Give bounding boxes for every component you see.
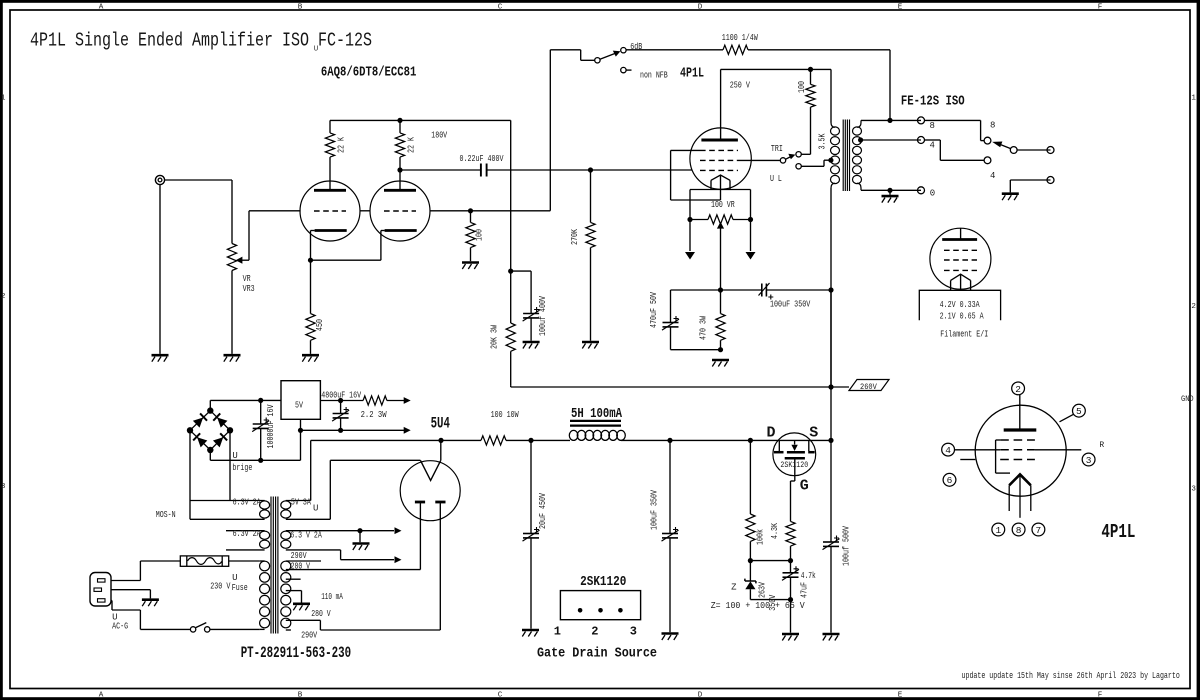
svg-text:100uf 500V: 100uf 500V	[842, 526, 852, 566]
label 100 VR	[711, 200, 735, 210]
pinout pin 5 lead	[1060, 414, 1074, 422]
label 350V	[768, 594, 778, 610]
transformer PT winding 6.3 V 2A (right)	[281, 531, 360, 550]
svg-text:brige: brige	[232, 463, 252, 473]
transformer PT winding 6.3V 2A #2 (left)	[226, 531, 270, 550]
svg-text:100k: 100k	[756, 529, 766, 545]
wire input jack ground leg	[159, 185, 161, 354]
label 6.3V 2A (#2)	[233, 529, 261, 539]
wire output jack ground	[1010, 180, 1050, 192]
svg-text:3: 3	[1191, 486, 1196, 494]
svg-text:E: E	[898, 3, 903, 11]
svg-text:230 V: 230 V	[210, 582, 231, 592]
svg-text:non NFB: non NFB	[640, 71, 668, 81]
pentode V3 grid g1 row	[700, 169, 738, 171]
svg-text:Z: Z	[731, 583, 737, 593]
package 2SK1120 outline	[560, 591, 640, 620]
label 110 mA	[321, 592, 343, 602]
svg-text:290V: 290V	[301, 630, 317, 640]
wire driver rail drop to 20K node	[510, 120, 512, 271]
node bridge bottom corner	[207, 447, 213, 453]
node 0V branch	[298, 428, 303, 433]
rectifier 5U4 filament vee	[420, 460, 440, 480]
hum pot 100 VR body	[690, 215, 751, 224]
diode bridge D1 (top-left)	[193, 413, 207, 427]
wire B+ lead into 5U4	[440, 440, 442, 460]
transistor Q1 channel	[774, 451, 815, 454]
wire bridge plus to regulator	[210, 400, 281, 410]
wire AC earth to ground	[111, 590, 150, 599]
label S	[809, 425, 818, 442]
ground (270K)	[582, 342, 599, 349]
svg-text:1100 1/4W: 1100 1/4W	[722, 33, 758, 43]
wire NFB resistor to 8ohm tap	[748, 50, 890, 121]
svg-text:290V: 290V	[291, 551, 307, 561]
transformer PT primary 230V winding	[260, 561, 270, 629]
stub 290V bottom tap	[286, 629, 291, 631]
svg-text:6: 6	[947, 475, 953, 486]
wire cathode bus	[311, 259, 381, 261]
svg-text:450: 450	[315, 319, 325, 331]
ground (cathode network)	[712, 360, 729, 367]
label 100uf 500V	[842, 526, 852, 566]
wire 4 terminal to selector	[925, 140, 985, 160]
svg-text:D: D	[767, 425, 776, 442]
net label GND at right frame edge	[1181, 394, 1194, 404]
filament reference tube filament	[951, 274, 971, 290]
wire 280V tap to 5U4 plate B	[286, 504, 441, 631]
wire input jack to volume pot	[165, 180, 232, 244]
resistor 20K 3W (dropper)	[506, 271, 515, 386]
update note text	[962, 671, 1180, 681]
label 2.2 3W	[361, 410, 387, 420]
svg-text:E: E	[898, 691, 903, 699]
pinout pin 6 circle	[943, 473, 956, 486]
arrow 0V output	[301, 427, 411, 434]
node 100uF 350V junction	[667, 438, 672, 443]
resistor 2.2 3W	[363, 396, 387, 405]
arrow to filament supply (left)	[685, 220, 695, 260]
node B+ takeoff	[438, 438, 443, 443]
ground (AC inlet)	[142, 600, 159, 607]
pinout pin 4 lead	[955, 449, 1000, 451]
label 100uf 400V	[538, 296, 548, 336]
label 6.3V 2A (#1)	[233, 498, 261, 508]
svg-text:10000uF 16V: 10000uF 16V	[266, 404, 276, 448]
svg-text:B: B	[298, 3, 303, 11]
label 450	[315, 319, 325, 331]
flag 260V	[849, 380, 889, 392]
wire OPT secondary bottom to 0 terminal	[857, 183, 921, 190]
svg-text:4.3K: 4.3K	[770, 523, 780, 539]
wire AC neutral to power switch	[111, 601, 190, 630]
wire grid link between triodes	[360, 210, 371, 212]
pinout pin 3 lead	[1035, 449, 1081, 451]
svg-text:1: 1	[995, 525, 1001, 536]
svg-text:U: U	[232, 573, 237, 583]
label 100uF 350V (filter)	[650, 490, 660, 530]
node source to B+ column	[828, 438, 833, 443]
resistor 100k (gate divider)	[746, 440, 755, 560]
wire B+ column 260V	[830, 290, 832, 440]
node hum pot right	[748, 217, 753, 222]
label 8 (selector)	[990, 121, 995, 131]
svg-text:A: A	[99, 691, 104, 699]
node bridge right corner	[227, 427, 233, 433]
svg-text:250 V: 250 V	[730, 81, 751, 91]
transformer PT core	[271, 497, 278, 634]
label PT-282911-563-230	[241, 644, 351, 662]
capacitor 47uF (gate filter)	[782, 561, 799, 600]
label 0.22uF 400V	[460, 154, 504, 164]
transistor Q1 gate lead	[791, 459, 795, 521]
capacitor 100uf 500V (output cap)	[823, 440, 840, 632]
bridge rectifier frame	[190, 411, 230, 450]
svg-text:4: 4	[990, 171, 995, 181]
svg-text:8: 8	[930, 121, 935, 131]
svg-text:TRI: TRI	[771, 144, 783, 154]
svg-text:4.7k: 4.7k	[801, 571, 816, 581]
svg-text:2: 2	[1191, 303, 1196, 311]
svg-text:1: 1	[1191, 95, 1196, 103]
label 100 (g2)	[797, 81, 807, 93]
pinout filament vee	[1009, 474, 1031, 517]
transformer PT winding 5V 3A (right)	[281, 501, 331, 520]
svg-text:Filament E/I: Filament E/I	[940, 330, 988, 340]
node gate network ground junction	[788, 597, 793, 602]
svg-text:2SK1120: 2SK1120	[580, 574, 626, 590]
svg-text:180V: 180V	[431, 131, 447, 141]
svg-text:PT-282911-563-230: PT-282911-563-230	[241, 644, 351, 662]
diode bridge D2 (top-right)	[213, 413, 227, 427]
svg-text:4P1L: 4P1L	[1101, 521, 1135, 543]
svg-text:100uF 350V: 100uF 350V	[650, 490, 660, 530]
resistor 270K	[586, 170, 595, 341]
switch SW-OUT blade	[992, 142, 1011, 149]
filament reference tube plate	[942, 228, 977, 239]
capacitor 10000uF 16V	[252, 400, 269, 460]
arrow 6.3V heater feed	[341, 550, 402, 563]
svg-text:VR3: VR3	[243, 284, 255, 294]
switch SW-OUT throw 8	[984, 137, 991, 144]
pinout pin 2 circle	[1012, 382, 1025, 395]
label G	[800, 478, 809, 495]
svg-text:6.3 V 2A: 6.3 V 2A	[290, 531, 322, 541]
label 4 (terminal)	[930, 141, 935, 151]
svg-text:3: 3	[630, 625, 637, 639]
triode V1 (6AQ8 a)	[300, 181, 360, 260]
svg-text:280 V: 280 V	[311, 609, 331, 619]
pinout grid rows	[1000, 440, 1035, 460]
pinout plate bar	[1004, 395, 1037, 430]
label 5H 100mA	[571, 406, 622, 422]
diode bridge D4 (bottom-right)	[213, 433, 227, 447]
label 250 V	[730, 81, 751, 91]
wire 5V winding to filament	[330, 460, 420, 519]
svg-text:3: 3	[1, 483, 6, 491]
wire 5V winding to B+ node	[311, 440, 441, 500]
ground (20uF)	[522, 630, 539, 637]
wire divider link	[750, 560, 790, 562]
svg-text:100uF 350V: 100uF 350V	[770, 300, 811, 310]
svg-text:7: 7	[1036, 525, 1042, 536]
svg-text:22 K: 22 K	[337, 137, 347, 153]
svg-text:5H 100mA: 5H 100mA	[571, 406, 622, 422]
ground (input jack)	[152, 355, 169, 362]
node zener top	[748, 558, 753, 563]
switch SW-OUT common	[1010, 147, 1017, 154]
pentode V3 filament	[711, 175, 730, 200]
label 0 (terminal)	[930, 189, 935, 199]
label U L	[770, 174, 782, 184]
label 4P1L (pinout)	[1101, 521, 1135, 543]
node 260V line junction	[828, 384, 833, 389]
wire power switch to PT primary	[210, 628, 260, 630]
svg-text:F: F	[1098, 3, 1103, 11]
node cathode junction	[308, 258, 313, 263]
wire 4P1L plate to OPT primary	[721, 69, 835, 127]
filament reference tube envelope	[930, 228, 991, 289]
frame zone letters bottom	[99, 691, 1103, 699]
node V2 plate junction	[397, 167, 402, 190]
label 2.1V 0.65 A	[940, 312, 984, 322]
wire choke output to MOSFET drain	[621, 439, 779, 441]
switch SW-NFB throw 6dB	[621, 48, 626, 53]
label 6.3 V 2A	[290, 531, 322, 541]
svg-text:280 V: 280 V	[291, 562, 311, 572]
node 4800uF bottom	[338, 428, 343, 433]
svg-text:3: 3	[1086, 455, 1092, 466]
label 4 (selector)	[990, 171, 995, 181]
label Filament E/I	[940, 330, 988, 340]
wire TRI throw to 100 ohm	[801, 107, 810, 154]
ground (450 cathode resistor)	[302, 355, 319, 362]
terminal 0 ohm	[918, 187, 925, 194]
svg-text:6AQ8/6DT8/ECC81: 6AQ8/6DT8/ECC81	[321, 65, 417, 81]
svg-text:6dB: 6dB	[630, 42, 642, 52]
svg-text:F: F	[1098, 691, 1103, 699]
label 2SK1120 (on Q1)	[780, 460, 808, 470]
transformer PT HT winding	[281, 561, 291, 628]
svg-text:4800uF 16V: 4800uF 16V	[321, 391, 361, 401]
wire 470uF to cathode ground	[671, 349, 721, 351]
svg-text:C: C	[498, 691, 503, 699]
label VR / VR3	[243, 274, 255, 294]
ground (100uf 500V)	[823, 634, 840, 641]
wire V2 grid to NFB node	[430, 210, 551, 212]
svg-text:100: 100	[475, 229, 485, 241]
capacitor 100uF 350V (B+ filter)	[662, 440, 679, 632]
label 263V	[758, 582, 768, 598]
svg-text:A: A	[99, 3, 104, 11]
switch SW-MODE throw TRI	[796, 152, 801, 157]
svg-text:2: 2	[1015, 384, 1021, 395]
node NFB takeoff dot	[887, 118, 892, 123]
svg-text:U: U	[313, 504, 318, 514]
svg-text:Fuse: Fuse	[232, 583, 248, 593]
label 1100 1/4W	[722, 33, 758, 43]
svg-text:D: D	[698, 691, 703, 699]
label 180V	[431, 131, 447, 141]
label 100 10W	[491, 410, 519, 420]
label non NFB	[640, 71, 668, 81]
wire g3 to filament loop	[671, 150, 721, 200]
wire cathode node left to 470uF	[671, 290, 721, 323]
label Z= 100 + 100 + 65 V	[711, 601, 806, 611]
label 230 V / Fuse	[210, 573, 248, 593]
frame zone numbers right	[1191, 95, 1196, 494]
svg-text:260V: 260V	[860, 382, 877, 392]
label 280 V (top)	[291, 562, 311, 572]
node 10000uF bottom	[258, 458, 263, 463]
svg-text:G: G	[800, 478, 809, 495]
label 290V (bottom)	[301, 630, 317, 640]
label D	[767, 425, 776, 442]
wire 6dB throw to NFB resistor	[626, 49, 723, 51]
transformer OPT secondary winding	[853, 127, 862, 184]
node 6.3V heater ground tap	[357, 527, 401, 534]
pinout pin 8 circle	[1012, 523, 1025, 536]
wire fuse to PT primary	[229, 560, 260, 562]
frame zone numbers left	[1, 95, 6, 492]
capacitor 0.22uF 400V coupling	[400, 164, 692, 177]
switch SW-NFB throw non NFB	[621, 67, 632, 72]
ground (volume pot)	[224, 355, 241, 362]
label 10000uF 16V	[266, 404, 276, 448]
wire 260V line	[511, 386, 849, 387]
label 20K 3W	[490, 325, 500, 349]
label 4.7k	[801, 571, 816, 581]
ground (100 grid return)	[462, 263, 479, 270]
transistor Q1 2SK1120 envelope	[773, 433, 816, 476]
wire HT center tap to ground	[286, 591, 302, 603]
switch SW-MODE blade	[786, 154, 796, 160]
filament reference tube grids	[944, 250, 977, 270]
label 8 (terminal)	[930, 121, 935, 131]
volume pot VR3 body	[227, 244, 236, 354]
frame zone letters top	[99, 3, 1103, 11]
triode V2 (6AQ8 b)	[370, 181, 430, 260]
transformer PT winding 6.3V 2A #1 (left)	[190, 501, 270, 520]
label 470uF 50V	[649, 292, 659, 328]
svg-text:47uF: 47uF	[800, 582, 810, 598]
svg-text:B: B	[298, 691, 303, 699]
node bridge top corner	[207, 407, 213, 413]
label 4.2V 0.33A	[940, 300, 980, 310]
transistor Q1 drain lead	[778, 440, 780, 451]
node 20uF junction	[528, 438, 533, 443]
svg-text:100uf 400V: 100uf 400V	[538, 296, 548, 336]
filament data box	[919, 290, 1000, 320]
svg-text:U: U	[314, 46, 319, 54]
svg-text:MOS-N: MOS-N	[156, 510, 176, 520]
pinout pin 7 circle	[1032, 523, 1045, 536]
pentode V3 grid g2 row	[700, 159, 738, 161]
label 4800uF 16V	[321, 391, 361, 401]
wire driver B+ rail	[330, 119, 511, 121]
wire 6.3V winding to bridge AC right	[229, 430, 231, 500]
label 22 K (V1)	[337, 137, 347, 153]
capacitor 100uf 400V (driver decoupling)	[523, 307, 540, 341]
wire g2 to mode switch	[738, 159, 780, 161]
label 6dB	[630, 42, 642, 52]
ground (secondary 0)	[882, 190, 899, 202]
terminal 4 ohm	[918, 137, 925, 144]
svg-text:470 3W: 470 3W	[699, 316, 709, 340]
switch SW-POWER	[190, 623, 209, 633]
wire 8 terminal to selector	[925, 120, 985, 140]
driver tube type label 6AQ8/6DT8/ECC81	[321, 65, 417, 81]
svg-text:S: S	[809, 425, 818, 442]
svg-text:4P1L Single Ended Amplifier IS: 4P1L Single Ended Amplifier ISO FC-12S	[30, 30, 372, 52]
pinout g1 stub	[960, 459, 975, 461]
wire regulator output	[320, 400, 363, 402]
transistor Q1 body arrow	[779, 440, 812, 451]
wire 280V tap to 5U4 plate A	[286, 504, 421, 570]
wire OPT secondary top to 8 terminal	[857, 120, 921, 127]
svg-text:100 VR: 100 VR	[711, 200, 735, 210]
pinout g3 loop	[996, 440, 1010, 473]
svg-text:4: 4	[930, 141, 935, 151]
label R (pinout)	[1099, 441, 1104, 450]
wire bridge minus rail	[210, 450, 300, 460]
svg-text:2: 2	[1, 293, 6, 301]
node ultrapath right junction	[828, 287, 833, 292]
label 4P1L (output tube)	[680, 66, 704, 82]
label 470 3W	[699, 316, 709, 340]
pinout 4P1L envelope	[975, 405, 1066, 496]
resistor 450 (cathode)	[306, 260, 315, 354]
connector AC-G inlet	[90, 573, 111, 607]
label 290V (top)	[291, 551, 307, 561]
switch SW-MODE throw UL	[796, 164, 801, 169]
node cathode filter junction	[718, 287, 723, 292]
node plate/100ohm junction	[808, 67, 813, 72]
svg-text:2.2 3W: 2.2 3W	[361, 410, 387, 420]
pentode V3 plate	[701, 69, 738, 140]
label 100 (grid return)	[475, 229, 485, 241]
resistor 4.3K (gate)	[786, 521, 795, 560]
svg-text:6.3V 2A: 6.3V 2A	[233, 498, 261, 508]
rectifier 5U4 plate A	[415, 502, 425, 504]
wire 6.3V winding to bridge AC left	[189, 430, 191, 519]
resistor 100 (V2 grid return)	[466, 211, 475, 261]
label TRI	[771, 144, 783, 154]
transistor Q1 source lead	[809, 440, 831, 451]
svg-text:470uF 50V: 470uF 50V	[649, 292, 659, 328]
label 100k	[756, 529, 766, 545]
capacitor 4800uF 16V	[332, 401, 349, 431]
svg-text:5V 3A: 5V 3A	[291, 498, 311, 508]
svg-text:270K: 270K	[570, 229, 580, 245]
svg-text:GND: GND	[1181, 394, 1194, 404]
svg-text:VR: VR	[243, 274, 251, 284]
ground (100uF 350V filter)	[662, 634, 679, 641]
svg-text:100 10W: 100 10W	[491, 410, 519, 420]
svg-text:5V: 5V	[295, 401, 303, 411]
svg-text:3.5K: 3.5K	[818, 133, 828, 149]
svg-text:5U4: 5U4	[431, 414, 451, 432]
node grid stopper junction	[468, 208, 473, 213]
wire filament legs to hum pot	[690, 190, 751, 220]
capacitor 100uF 350V (ultrapath)	[721, 283, 832, 300]
svg-text:4.2V 0.33A: 4.2V 0.33A	[940, 300, 980, 310]
arrow to filament supply (right)	[746, 220, 756, 260]
resistor 22 K (V1 plate load)	[325, 120, 334, 190]
svg-text:263V: 263V	[758, 582, 768, 598]
node gate divider top	[748, 438, 753, 443]
node rail junction dot at 22K#2	[397, 118, 402, 123]
